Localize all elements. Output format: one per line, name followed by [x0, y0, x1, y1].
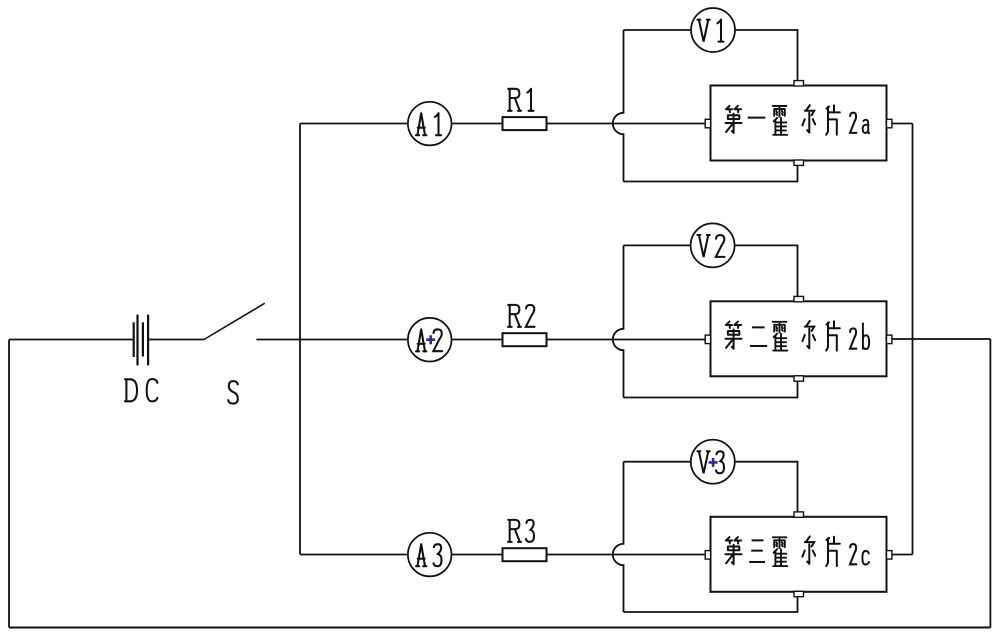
inner right bus	[912, 124, 914, 555]
wire V1 right to top pin	[735, 30, 798, 81]
wire outer right side up	[989, 339, 991, 628]
wire bus to A3	[300, 554, 408, 556]
wire switch to A2	[256, 339, 408, 341]
wire V2 right to top pin	[735, 245, 798, 296]
U1 pin bottom	[794, 160, 804, 165]
wire A3 to R3	[452, 554, 503, 556]
voltmeter V1	[691, 8, 735, 52]
wire V1 left	[624, 29, 692, 31]
bus left vertical	[299, 124, 301, 555]
wire V3 bottom loop	[624, 597, 798, 612]
wire R1 to hall plate 1	[547, 123, 706, 125]
wire V2 bottom loop	[624, 382, 798, 398]
resistor R1	[503, 117, 547, 130]
wire U3 right pin to inner bus	[892, 554, 913, 556]
U1 pin right	[887, 119, 892, 128]
hall plate box U2	[711, 301, 887, 376]
wire V3 left	[624, 461, 691, 463]
ammeter A1	[408, 102, 452, 146]
U1 pin left	[705, 119, 710, 128]
U1 pin top	[794, 81, 804, 86]
label U2: 第二霍尔片2b	[726, 321, 870, 351]
hall plate box U1	[711, 86, 887, 161]
wire A2 to R2	[452, 339, 503, 341]
wire U1 right pin to inner bus	[892, 123, 913, 125]
wire battery to switch	[148, 339, 204, 341]
U2 pin right	[887, 335, 892, 344]
resistor R2	[503, 333, 547, 346]
wire outer left: battery to left edge	[9, 339, 134, 341]
wire V1 drop with crossover hop	[613, 30, 624, 182]
wire V2 left	[624, 244, 691, 246]
U3 pin top	[794, 512, 804, 517]
wire R2 to hall plate 2	[547, 339, 706, 341]
wire outer left side down	[8, 340, 10, 628]
label R2	[508, 305, 521, 327]
U3 pin left	[705, 551, 710, 560]
hall plate box U3	[711, 517, 887, 592]
wire R3 to hall plate 3	[547, 554, 706, 556]
voltmeter V2	[691, 223, 735, 267]
resistor R3	[503, 548, 547, 561]
label DC	[125, 379, 137, 401]
wire V2 drop with crossover hop	[613, 245, 624, 397]
U2 pin bottom	[794, 376, 804, 381]
label R1	[508, 89, 521, 111]
U3 pin bottom	[794, 591, 804, 596]
label S	[228, 381, 238, 404]
ammeter A2	[408, 318, 452, 362]
wire U2 right pin to outer right bus	[892, 338, 991, 340]
U3 pin right	[887, 551, 892, 560]
wire V3 drop with crossover hop	[613, 462, 624, 612]
label U1: 第一霍尔片2a	[726, 105, 870, 135]
label U3: 第三霍尔片2c	[726, 537, 869, 567]
wire bus to A1	[300, 123, 408, 125]
wire V1 bottom loop	[624, 166, 798, 182]
ammeter A3	[408, 533, 452, 577]
battery DC	[134, 315, 148, 366]
wire A1 to R1	[452, 123, 503, 125]
label R3	[508, 520, 521, 542]
voltmeter V3	[691, 440, 735, 484]
U2 pin top	[794, 296, 804, 301]
U2 pin left	[705, 335, 710, 344]
switch S arm	[204, 303, 265, 339]
wire V3 right to top pin	[735, 462, 798, 512]
wire outer bottom	[9, 627, 990, 629]
